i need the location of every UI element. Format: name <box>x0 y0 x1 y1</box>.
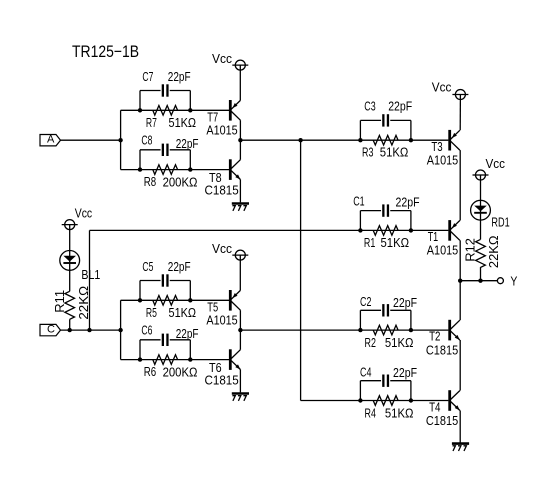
svg-text:R1: R1 <box>364 236 375 250</box>
node R2 left <box>358 328 362 332</box>
transistor T8 <box>229 159 232 180</box>
node R3 right <box>409 138 413 142</box>
transistor T3 <box>448 130 451 151</box>
wire T4 emitter to ground <box>459 410 461 442</box>
svg-text:T5: T5 <box>207 301 218 315</box>
svg-text:T2: T2 <box>429 330 440 344</box>
node R3 left <box>358 138 362 142</box>
svg-text:C4: C4 <box>360 366 371 380</box>
node R7 right <box>188 108 192 112</box>
wire T3 collector to T1 emitter <box>459 150 461 220</box>
node T7T8 output <box>238 138 242 142</box>
node Y left <box>458 279 462 283</box>
svg-text:22pF: 22pF <box>176 327 199 341</box>
wire bus3 to R3 <box>301 139 361 141</box>
wire C3 branch <box>359 120 361 140</box>
ground T4 <box>452 442 469 445</box>
wire T2 emitter to T4 collector <box>459 340 461 391</box>
connector C <box>40 324 61 335</box>
svg-text:R3: R3 <box>362 145 373 159</box>
svg-text:A1015: A1015 <box>427 243 458 257</box>
svg-text:T1: T1 <box>428 230 439 244</box>
svg-text:A1015: A1015 <box>206 124 237 138</box>
transistor T4 <box>448 390 451 411</box>
svg-text:R4: R4 <box>365 406 376 420</box>
node R12 Y junction <box>478 279 482 283</box>
resistor R11 <box>65 291 75 319</box>
transistor T1 <box>448 220 451 241</box>
svg-text:51KΩ: 51KΩ <box>385 336 414 350</box>
wire T5 collector <box>239 310 241 330</box>
wire C8 branch <box>139 150 141 170</box>
capacitor C3 <box>382 114 384 126</box>
wire R3 row <box>360 139 411 141</box>
node R6 left <box>138 357 142 361</box>
capacitor C1 <box>382 204 384 216</box>
wire R11 to C row <box>69 319 71 330</box>
node R5 left <box>138 298 142 302</box>
wire A input <box>61 139 121 141</box>
wire R1 to base <box>411 229 449 231</box>
wire C riser vertical <box>89 230 91 330</box>
wire R8 row <box>121 169 229 171</box>
LED RD1 <box>471 200 491 220</box>
resistor R1 <box>373 226 398 236</box>
svg-text:A: A <box>47 133 55 145</box>
svg-text:Vcc: Vcc <box>75 207 93 221</box>
wire R2 to base <box>411 329 449 331</box>
svg-text:22pF: 22pF <box>168 260 191 274</box>
node R6 right <box>188 357 192 361</box>
svg-text:22pF: 22pF <box>168 70 191 84</box>
wire R1 feed <box>90 229 361 231</box>
svg-text:51KΩ: 51KΩ <box>381 236 410 250</box>
svg-text:R6: R6 <box>144 365 156 379</box>
svg-text:T3: T3 <box>431 140 442 154</box>
svg-text:51KΩ: 51KΩ <box>169 116 197 130</box>
node bus3 top <box>298 138 302 142</box>
node R1 left <box>358 228 362 232</box>
svg-text:C6: C6 <box>141 324 152 338</box>
wire C input <box>61 329 121 331</box>
wire R12 to Y row <box>480 267 482 281</box>
wire R7 row <box>121 109 229 111</box>
svg-text:C1: C1 <box>353 195 364 209</box>
wire C7 branch <box>139 91 141 111</box>
capacitor C7 <box>162 84 164 96</box>
svg-text:RD1: RD1 <box>491 216 509 230</box>
wire bus3 to R4 <box>301 400 361 402</box>
resistor R8 <box>153 165 178 175</box>
svg-text:R11: R11 <box>53 290 67 313</box>
wire T2 collector <box>459 281 461 321</box>
svg-text:R8: R8 <box>144 175 156 189</box>
transistor T7 <box>229 100 232 121</box>
wire C1 branch <box>359 211 361 231</box>
node R5 right <box>188 298 192 302</box>
node R7 left <box>138 108 142 112</box>
wire T7T8 out to bus <box>240 139 300 141</box>
node C riser <box>87 328 91 332</box>
wire C5 branch <box>139 281 141 301</box>
wire Vcc to T5 emitter <box>239 255 241 290</box>
svg-text:C7: C7 <box>142 70 153 84</box>
terminal Y <box>497 278 503 284</box>
ground T6 <box>232 392 249 395</box>
power Vcc T3 <box>455 90 465 100</box>
resistor R3 <box>373 135 398 145</box>
svg-text:C8: C8 <box>141 134 152 148</box>
svg-text:C2: C2 <box>360 295 371 309</box>
wire R6 row <box>121 359 229 361</box>
transistor T5 <box>229 290 232 311</box>
wire R5 row <box>121 299 229 301</box>
wire T6 collector <box>239 330 241 350</box>
wire bus A vertical <box>120 110 122 169</box>
wire T6 emitter to ground <box>239 370 241 393</box>
capacitor C2 <box>382 304 384 316</box>
node R1 right <box>409 228 413 232</box>
svg-text:22KΩ: 22KΩ <box>487 236 501 269</box>
connector A <box>40 135 61 146</box>
svg-text:22pF: 22pF <box>396 196 420 210</box>
svg-text:T7: T7 <box>207 111 218 125</box>
wire R2 row <box>360 329 411 331</box>
wire Y row <box>460 280 497 282</box>
wire C2 branch <box>359 310 361 330</box>
power Vcc BL1 <box>65 220 75 230</box>
wire T7 collector <box>239 120 241 140</box>
svg-text:TR125−1B: TR125−1B <box>72 42 139 61</box>
node R4 left <box>358 398 362 402</box>
node A-bus junction <box>118 138 122 142</box>
wire C6 branch <box>139 340 141 360</box>
svg-text:C1815: C1815 <box>205 373 239 387</box>
wire Vcc to T3 emitter <box>459 95 461 131</box>
capacitor C5 <box>162 274 164 286</box>
wire R4 to base <box>411 400 449 402</box>
transistor T2 <box>448 320 451 341</box>
svg-text:C: C <box>47 323 55 335</box>
node R4 right <box>409 398 413 402</box>
power Vcc T7 <box>235 60 245 70</box>
wire C4 branch <box>359 381 361 401</box>
wire T8 emitter to ground <box>239 180 241 203</box>
node C bus <box>118 328 122 332</box>
svg-text:Vcc: Vcc <box>212 242 232 256</box>
capacitor C4 <box>382 375 384 387</box>
resistor R7 <box>153 106 178 116</box>
svg-text:51KΩ: 51KΩ <box>169 306 197 320</box>
svg-text:C1815: C1815 <box>426 343 458 357</box>
resistor R4 <box>373 396 398 406</box>
resistor R2 <box>373 325 398 335</box>
svg-text:R12: R12 <box>464 238 478 262</box>
svg-text:200KΩ: 200KΩ <box>163 365 198 379</box>
svg-text:R5: R5 <box>146 306 157 320</box>
svg-text:22pF: 22pF <box>176 137 199 151</box>
node T5T6 output <box>238 328 242 332</box>
svg-text:R7: R7 <box>146 116 157 130</box>
svg-text:Y: Y <box>510 275 518 289</box>
node R8 right <box>188 167 192 171</box>
svg-text:C5: C5 <box>142 260 153 274</box>
resistor R6 <box>153 355 178 365</box>
wire R1 row <box>360 229 411 231</box>
svg-text:R2: R2 <box>365 336 376 350</box>
power Vcc RD1 <box>476 170 486 180</box>
resistor R5 <box>153 296 178 306</box>
wire T1 collector to Y <box>459 240 461 280</box>
wire R3 to base <box>411 139 449 141</box>
wire Vcc to BL1 <box>69 225 71 251</box>
svg-text:Vcc: Vcc <box>212 52 232 66</box>
svg-text:C3: C3 <box>364 100 375 114</box>
capacitor C8 <box>162 144 164 156</box>
svg-text:C1815: C1815 <box>426 414 458 428</box>
resistor R12 <box>476 239 486 267</box>
power Vcc T5 <box>235 250 245 260</box>
svg-text:Vcc: Vcc <box>432 81 452 95</box>
wire bus3 vertical <box>300 140 302 400</box>
svg-text:51KΩ: 51KΩ <box>380 145 409 159</box>
svg-text:22pF: 22pF <box>393 366 417 380</box>
node C R11 <box>68 328 72 332</box>
wire bus C vertical <box>120 300 122 359</box>
wire R4 row <box>360 400 411 402</box>
svg-text:A1015: A1015 <box>427 153 458 167</box>
svg-text:Vcc: Vcc <box>486 157 506 171</box>
wire T8 collector <box>239 140 241 160</box>
wire Vcc to T7 emitter <box>239 65 241 100</box>
wire BL1 to R11 <box>69 270 71 291</box>
svg-text:A1015: A1015 <box>206 314 237 328</box>
node R2 right <box>409 328 413 332</box>
wire RD1 to R12 <box>480 220 482 239</box>
node R8 left <box>138 167 142 171</box>
ground T8 <box>232 202 249 205</box>
svg-text:T4: T4 <box>429 401 440 415</box>
svg-text:BL1: BL1 <box>81 268 100 282</box>
transistor T6 <box>229 349 232 370</box>
svg-text:200KΩ: 200KΩ <box>163 175 198 189</box>
svg-text:22pF: 22pF <box>388 100 412 114</box>
svg-text:22pF: 22pF <box>393 296 417 310</box>
wire Vcc to RD1 <box>480 175 482 200</box>
wire T5T6 out to R2 <box>240 329 360 331</box>
capacitor C6 <box>162 334 164 346</box>
svg-text:C1815: C1815 <box>205 183 239 197</box>
LED BL1 <box>60 251 80 271</box>
svg-text:51KΩ: 51KΩ <box>385 407 414 421</box>
